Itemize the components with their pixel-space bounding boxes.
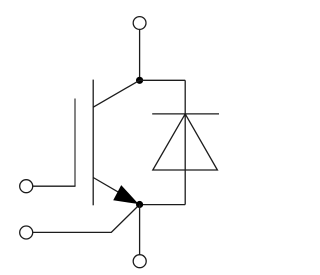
diode D1 (freewheeling, cathode up) xyxy=(152,114,219,170)
node collector junction xyxy=(136,77,143,84)
wire (diode bottom to emitter node) xyxy=(140,204,186,206)
terminal G (gate pin) xyxy=(20,180,33,193)
wire (aux emitter pin to emitter node) xyxy=(33,205,140,233)
terminal E (bottom emitter pin) xyxy=(133,255,146,268)
terminal E aux (auxiliary emitter pin) xyxy=(20,226,33,239)
wire (collector node to diode top) xyxy=(140,79,186,81)
wire (top terminal to collector node) xyxy=(139,30,141,81)
wire (emitter node to bottom terminal) xyxy=(139,205,141,255)
transistor Q1 (IGBT) xyxy=(75,80,140,206)
wire (diode branch vertical) xyxy=(184,80,186,204)
wire (gate pin to gate bar) xyxy=(33,185,76,187)
node emitter junction xyxy=(136,201,143,208)
terminal C (top collector pin) xyxy=(133,17,146,30)
